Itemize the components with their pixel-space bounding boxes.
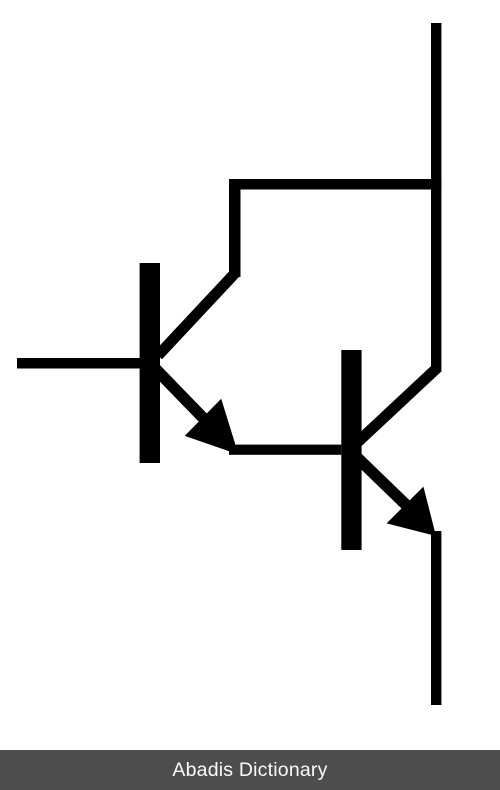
transistor Q1 base bar [140, 263, 160, 463]
transistor Q1 collector diagonal [158, 274, 235, 356]
transistor Q1 emitter diagonal [155, 368, 218, 433]
wire: bottom emitter lead [431, 531, 441, 705]
caption bar: Abadis Dictionary [0, 750, 500, 790]
wire: Q1 collector elbow vertical segment [229, 179, 241, 277]
wire: Q1 base lead (left) [17, 358, 140, 369]
wire: top collector lead (output, to supply) [431, 23, 441, 372]
transistor Q2 base bar [341, 350, 361, 550]
transistor Q2 collector diagonal [358, 368, 437, 442]
wire: top horizontal from Q1 collector elbow to top lead [229, 179, 441, 190]
wire: Q1 emitter to Q2 base [229, 445, 341, 455]
transistor Q2 emitter arrowhead [387, 487, 436, 536]
transistor Q2 emitter diagonal [356, 456, 416, 514]
transistor Q1 emitter arrowhead [185, 399, 236, 453]
